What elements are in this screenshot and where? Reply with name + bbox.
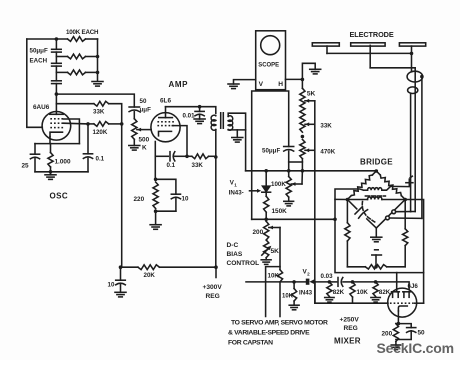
ground xfmr secondary <box>232 137 243 139</box>
node xfmr return junction <box>214 155 218 159</box>
svg-text:10K: 10K <box>357 289 369 296</box>
wire detector node rail <box>246 170 377 172</box>
svg-text:& VARIABLE-SPEED DRIVE: & VARIABLE-SPEED DRIVE <box>228 330 310 337</box>
capacitor 50uuF #1 <box>52 48 62 50</box>
diode V1 IN43 <box>263 186 270 191</box>
wire 6AU6 plate lead <box>55 94 57 114</box>
svg-text:20K: 20K <box>144 272 156 279</box>
ground osc cathode <box>50 172 52 175</box>
wire 0.03 left lead <box>329 281 336 283</box>
potentiometer 5K bias <box>264 240 269 258</box>
capacitor 10 amp <box>171 193 180 195</box>
wire V1 top lead <box>265 171 267 186</box>
svg-text:10K: 10K <box>282 294 294 300</box>
svg-text:BIAS: BIAS <box>227 251 243 258</box>
potentiometer 100K <box>286 177 291 198</box>
svg-text:EACH: EACH <box>30 58 48 65</box>
resistor 20K <box>138 265 159 270</box>
wire 0.01 bottom lead <box>199 116 201 119</box>
wire bar3 to head <box>411 53 413 71</box>
wire 0.1cap bottom lead <box>87 158 89 171</box>
inductor xfmr primary <box>211 115 216 121</box>
wire 33K osc left <box>56 103 94 105</box>
wire 10K2 gnd lead <box>293 301 295 305</box>
wire 0.03 right lead <box>343 281 353 283</box>
wire left vertex tee <box>335 198 347 200</box>
head coil small <box>408 87 418 94</box>
wire ladder spine seg4 <box>55 84 57 95</box>
wire ladder right bus <box>97 39 99 81</box>
terminal bridge tap2 <box>386 216 390 220</box>
pin 6AU6 cathode <box>50 132 63 136</box>
resistor 200 mixer <box>393 324 398 342</box>
node screen junction <box>185 155 189 159</box>
wire ladder top rail <box>27 38 68 40</box>
scope crt circle <box>261 36 280 55</box>
ground 10K2 <box>289 304 299 306</box>
node ladder input junction <box>55 37 59 41</box>
svg-text:10K: 10K <box>268 273 280 280</box>
svg-text:REG: REG <box>344 325 358 332</box>
resistor 1.000 <box>48 153 53 168</box>
wire V1 to 150K <box>265 192 267 196</box>
wire 6J6 plate1 lead <box>396 273 398 292</box>
svg-text:FOR CAPSTAN: FOR CAPSTAN <box>228 340 273 347</box>
wire 6L6 plate top <box>166 106 200 108</box>
wire 25cap top lead <box>34 144 36 155</box>
wire 6AU6 grid2 exit <box>63 122 88 125</box>
svg-text:5K: 5K <box>271 248 280 255</box>
ground 5K bias <box>261 259 271 261</box>
resistor 10K mixer <box>350 282 355 297</box>
svg-text:ELECTRODE: ELECTRODE <box>350 30 394 39</box>
node bridge left vertex <box>346 198 350 202</box>
wire 500K wiper to 6L6 grid <box>137 129 151 131</box>
terminal bridge tap1 <box>392 210 396 214</box>
ground 10cap300 <box>115 291 126 293</box>
svg-text:100K EACH: 100K EACH <box>66 29 99 36</box>
wire 100K gnd lead <box>288 197 290 201</box>
capacitor 10 at 300V <box>116 279 126 281</box>
wire 150K bottom lead <box>265 212 267 219</box>
capacitor 0.03 series <box>337 278 339 287</box>
svg-text:1.000: 1.000 <box>55 159 71 166</box>
svg-text:200: 200 <box>382 331 393 338</box>
wire xfmr primary bottom lead <box>215 130 217 158</box>
ground 82K2 <box>371 297 380 299</box>
pin 6L6 grid dashes <box>157 122 174 126</box>
node bridge top vertex <box>375 169 379 173</box>
capacitor 0.1 amp series <box>169 152 171 161</box>
capacitor 25 <box>30 153 39 155</box>
svg-text:OSC: OSC <box>50 192 69 201</box>
svg-text:50: 50 <box>418 330 426 337</box>
svg-text:IN43-: IN43- <box>229 189 244 196</box>
wire head to bridge tap2 <box>389 217 422 219</box>
wire bridge core dashes <box>365 195 369 197</box>
electrode bar 1 <box>312 43 339 46</box>
resistor 33K amp <box>192 154 209 159</box>
svg-text:82K: 82K <box>333 289 345 296</box>
svg-text:0.1: 0.1 <box>167 162 176 169</box>
node 10K2 junction <box>292 280 296 284</box>
inductor xfmr secondary <box>228 116 233 122</box>
wire mixer signal rail <box>246 281 306 283</box>
wire bridge variable dashed arc <box>362 202 376 223</box>
node electrode junction <box>410 52 414 56</box>
wire 0.01 top lead <box>199 107 201 112</box>
wire 10K1 top lead <box>279 267 281 270</box>
wire bridge lower-right arm <box>376 200 405 229</box>
wire 10cap bottom lead <box>175 199 177 211</box>
resistor 100K #1 <box>68 37 86 42</box>
wire 33K amp right <box>209 155 216 157</box>
wire 25cap bottom lead <box>34 159 36 172</box>
inductor bridge upper <box>364 189 368 191</box>
node chain mid junction <box>301 135 305 139</box>
node V1 junction <box>264 169 268 173</box>
svg-text:50μμF: 50μμF <box>30 48 48 55</box>
wire IN43 arrow v1 <box>250 190 258 192</box>
wire 50cap bottom lead <box>396 331 411 340</box>
resistor 470K <box>300 139 305 158</box>
node bridge bottom junction <box>374 265 378 269</box>
wire bias rail <box>252 218 335 220</box>
pin 6AU6 plate bar <box>50 113 63 115</box>
tube 6L6 envelope <box>151 113 180 142</box>
wire 50uuF bottom lead <box>288 151 290 171</box>
svg-text:33K: 33K <box>320 122 332 129</box>
wire 300V rail right <box>159 266 216 268</box>
pin 6L6 plate bar <box>159 117 173 119</box>
ground bridge center <box>371 236 382 238</box>
wire 200 top lead <box>265 219 267 221</box>
wire 500K top lead <box>133 112 135 119</box>
node 300V right junction <box>214 265 218 269</box>
svg-text:470K: 470K <box>320 148 335 155</box>
wire screen supply down <box>215 156 217 267</box>
svg-text:MIXER: MIXER <box>334 337 361 346</box>
capacitor 50 <box>407 327 416 329</box>
wire xfmr secondary loop <box>228 113 245 130</box>
resistor bridge upper-right arm <box>376 171 380 175</box>
potentiometer 500K <box>132 119 137 140</box>
scope box <box>256 31 286 90</box>
ground 82K1 <box>325 297 334 299</box>
ground H jog <box>310 68 321 70</box>
wire 220 bottom rail <box>156 210 176 212</box>
wire xfmr secondary to detector <box>245 130 247 171</box>
node 220 top junction <box>154 178 158 182</box>
svg-text:50μμF: 50μμF <box>262 147 280 154</box>
resistor 10K 2 <box>292 289 297 302</box>
node 220 bottom junction <box>154 209 158 213</box>
ground 500K <box>129 145 140 147</box>
label 470K tap <box>305 149 315 151</box>
wire 100K top lead <box>288 171 290 177</box>
svg-text:6J6: 6J6 <box>408 283 419 290</box>
wire 1000res top lead <box>50 144 52 153</box>
wire 5K wiper <box>305 100 315 102</box>
wire mixer grid rail <box>315 282 388 303</box>
wire 5K bias arrow <box>262 248 269 255</box>
node 0.01 junction <box>198 105 202 109</box>
svg-text:0.03: 0.03 <box>321 273 334 280</box>
wire 33K osc right <box>109 104 122 124</box>
node bias right junction <box>333 218 337 222</box>
svg-text:IN43: IN43 <box>299 290 313 297</box>
wire bar3 stub <box>411 46 413 53</box>
pin 6L6 cathode <box>159 131 172 136</box>
wire 10cap300 gnd lead <box>120 285 122 293</box>
svg-text:120K: 120K <box>93 129 108 136</box>
potentiometer 200 <box>264 221 269 240</box>
wire cathode gnd lead <box>395 342 397 346</box>
wire 6L6 screen exit <box>172 126 187 157</box>
node 82K1 junction <box>328 280 332 284</box>
svg-text:200: 200 <box>253 229 264 236</box>
svg-text:SeekIC.com: SeekIC.com <box>377 340 454 356</box>
capacitor 0.01 <box>195 110 204 112</box>
resistor bridge left <box>345 223 350 241</box>
tube 6J6 envelope <box>388 288 417 317</box>
svg-text:100K: 100K <box>271 181 286 188</box>
head coil large <box>407 71 423 82</box>
wire 220 cap branch top <box>156 179 176 194</box>
svg-text:AMP: AMP <box>169 80 189 89</box>
svg-text:V: V <box>259 81 264 88</box>
capacitor bridge bottom <box>375 255 377 267</box>
wire head line outer <box>421 77 423 219</box>
svg-text:+250V: +250V <box>340 317 360 324</box>
pin 6J6 grid dashes <box>390 302 414 304</box>
svg-text:33K: 33K <box>192 162 204 169</box>
svg-text:0.01: 0.01 <box>183 113 196 120</box>
wire bridge excite plus <box>391 179 410 186</box>
wire scope enclosure <box>252 91 289 219</box>
node cathode gnd junction <box>49 170 53 174</box>
svg-text:6AU6: 6AU6 <box>33 104 50 111</box>
resistor bridge bottom <box>365 265 386 269</box>
wire scope V to ground <box>234 80 256 84</box>
wire bridge left leg2 <box>346 241 348 267</box>
wire 120K left <box>88 123 94 125</box>
wire bar2 stub <box>369 45 371 67</box>
node mixer 10K junction <box>351 280 355 284</box>
node 6AU6 plate junction <box>55 92 59 96</box>
svg-text:500: 500 <box>139 137 150 144</box>
wire ladder spine seg1 <box>55 39 57 49</box>
node 6J6 cathode junction <box>397 322 401 326</box>
label 33K tap <box>305 123 315 125</box>
resistor bridge upper-left arm <box>372 171 376 175</box>
wire ladder rung2 <box>56 56 67 58</box>
svg-text:BRIDGE: BRIDGE <box>360 158 393 167</box>
node head junction <box>420 75 424 79</box>
svg-text:REG: REG <box>206 293 220 300</box>
wire cathode top rail <box>35 143 79 145</box>
wire 100K wiper <box>291 183 302 185</box>
wire ladder rung3 <box>56 71 67 73</box>
wire bar1 stub <box>326 46 328 53</box>
wire bridge to mixer <box>335 219 424 272</box>
wire mixer rail to 6J6 plate <box>353 282 410 289</box>
wire head to bridge tap1 <box>396 211 416 213</box>
wire bridge left leg <box>346 200 348 223</box>
capacitor 50uuF #2 <box>52 62 62 64</box>
resistor 82K 1 <box>327 282 332 297</box>
diode V2 IN43 <box>306 279 310 285</box>
wire ladder spine seg3 <box>55 66 57 81</box>
svg-text:μμF: μμF <box>140 107 152 114</box>
wire 300V stub <box>215 267 217 277</box>
ground 6J6 cathode <box>391 344 400 346</box>
wire 500K bottom lead <box>133 139 135 145</box>
capacitor bridge arm <box>355 207 362 214</box>
wire 6L6 plate lead <box>165 107 167 118</box>
wire V2 right <box>314 281 329 283</box>
svg-text:220: 220 <box>134 196 145 203</box>
wire cathode bottom rail <box>35 171 88 173</box>
svg-text:CONTROL: CONTROL <box>227 260 260 267</box>
node 300V left junction <box>119 265 123 269</box>
ground 0.01 <box>194 118 205 120</box>
svg-text:150K: 150K <box>272 208 288 215</box>
wire 10K1 below <box>279 282 281 317</box>
svg-text:+300V: +300V <box>203 284 223 291</box>
electrode bar 2 <box>351 43 385 46</box>
wire 6AU6 cathode lead <box>49 137 51 144</box>
svg-text:K: K <box>142 145 147 152</box>
svg-text:6L6: 6L6 <box>160 98 171 105</box>
node 120K right junction <box>120 122 124 126</box>
resistor 82K 2 <box>373 282 378 297</box>
wire 220 gnd lead <box>155 211 157 225</box>
svg-text:25: 25 <box>22 163 30 170</box>
wire xfmr primary top lead <box>200 107 216 114</box>
pin 6AU6 grid dashes <box>50 119 63 128</box>
svg-text:10: 10 <box>108 282 115 289</box>
wire electrode bus A <box>327 52 412 54</box>
pin 6J6 plate 2 <box>403 291 411 293</box>
wire 1000res bottom lead <box>50 167 52 172</box>
wire bridge lower-left arm <box>347 200 356 209</box>
wire head line inner <box>410 93 412 211</box>
wire 6AU6 screen wrap <box>63 119 79 144</box>
potentiometer 5K h-gain <box>300 88 305 132</box>
wire bridge bottom stem <box>375 228 377 237</box>
node bias 200 junction <box>264 218 268 222</box>
capacitor 50uuF #3 <box>52 80 62 82</box>
wire 0.1amp right lead <box>175 155 187 157</box>
wire 33K amp left <box>187 155 192 157</box>
wire chain top lead <box>301 79 303 88</box>
wire chain jog to cap line <box>289 161 303 163</box>
resistor 150K <box>264 196 269 212</box>
capacitor 0.1 osc <box>83 153 92 155</box>
wire xfmr core <box>220 113 222 128</box>
svg-text:0.1: 0.1 <box>96 156 105 163</box>
ground ladder bus <box>92 81 103 83</box>
wire plate supply bus down <box>121 124 123 267</box>
wire chain bottom <box>301 159 303 171</box>
svg-text:H: H <box>278 81 283 88</box>
svg-text:1: 1 <box>234 183 237 188</box>
wire electrode bus B <box>370 68 415 212</box>
wire 10K mixer bottom <box>352 297 354 303</box>
svg-text:SCOPE: SCOPE <box>258 61 279 68</box>
node 120K left junction <box>86 122 90 126</box>
resistor 100K #2 <box>68 54 86 59</box>
wire ladder spine seg2 <box>55 52 57 63</box>
capacitor 50uuF detector <box>284 146 294 148</box>
resistor 220 <box>153 182 158 209</box>
wire bridge net long <box>335 189 364 219</box>
wire 300V rail left <box>121 266 139 268</box>
wire 0.1cap top lead <box>87 124 89 154</box>
resistor 100K #3 <box>68 70 86 75</box>
tube 6AU6 envelope <box>42 112 71 141</box>
svg-text:TO SERVO AMP, SERVO MOTOR: TO SERVO AMP, SERVO MOTOR <box>231 320 328 327</box>
svg-text:D-C: D-C <box>227 242 239 249</box>
node chain junction <box>301 169 305 173</box>
svg-text:5K: 5K <box>307 91 316 98</box>
node bridge right vertex <box>403 198 407 202</box>
wire scope H right <box>286 78 303 80</box>
pin 6J6 cathode <box>398 306 407 311</box>
ground 220 <box>150 224 161 226</box>
node R3 right junction <box>96 71 100 75</box>
resistor 10K 1 <box>277 270 282 282</box>
node 82K2 junction <box>374 280 378 284</box>
wire 5K bias gnd lead <box>265 258 267 260</box>
wire xfmr secondary gnd tap <box>236 130 238 138</box>
node 100K junction <box>287 169 291 173</box>
electrode bar 3 <box>399 43 425 46</box>
resistor 120K <box>94 122 109 127</box>
capacitor 50uuF coupling <box>129 106 139 108</box>
pin 6J6 plate 1 <box>392 291 400 293</box>
wire grid feedback left <box>27 39 43 127</box>
wire 120K right <box>109 123 122 125</box>
svg-text:2: 2 <box>307 272 310 277</box>
resistor 33K osc <box>94 101 109 106</box>
wire bridge right leg <box>404 200 406 229</box>
wire 6L6 cathode lead <box>154 142 156 180</box>
inductor bridge lower <box>347 199 367 201</box>
node scope H junction <box>301 78 305 82</box>
svg-text:50: 50 <box>140 98 147 105</box>
wire osc plate to amp <box>56 94 134 107</box>
wire 0.1amp left lead <box>155 155 168 157</box>
wire 200 wiper <box>269 227 280 229</box>
svg-text:10: 10 <box>182 196 189 203</box>
ground scope V <box>228 83 239 85</box>
wire bridge out right vertex <box>405 200 423 304</box>
wire 6J6 cathode lead <box>397 311 399 324</box>
wire 10cap300 top lead <box>120 267 122 280</box>
wire bridge right leg2 <box>404 246 406 267</box>
node R2 right junction <box>96 55 100 59</box>
resistor bridge right <box>403 229 408 246</box>
wire bridge bottom rail <box>347 266 365 268</box>
wire 10K2 top lead <box>293 282 295 289</box>
ground 100K <box>284 200 294 202</box>
svg-text:33K: 33K <box>93 109 105 116</box>
wire H gnd jog <box>302 63 315 79</box>
wire 50cap branch <box>398 324 411 328</box>
